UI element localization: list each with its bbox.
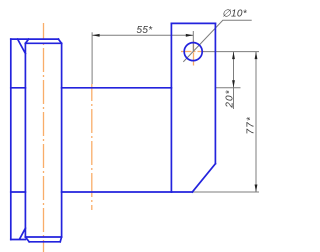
svg-text:20*: 20* xyxy=(225,89,236,108)
svg-text:77*: 77* xyxy=(245,116,256,134)
svg-text:∅10*: ∅10* xyxy=(222,9,248,20)
svg-text:55*: 55* xyxy=(137,25,154,36)
